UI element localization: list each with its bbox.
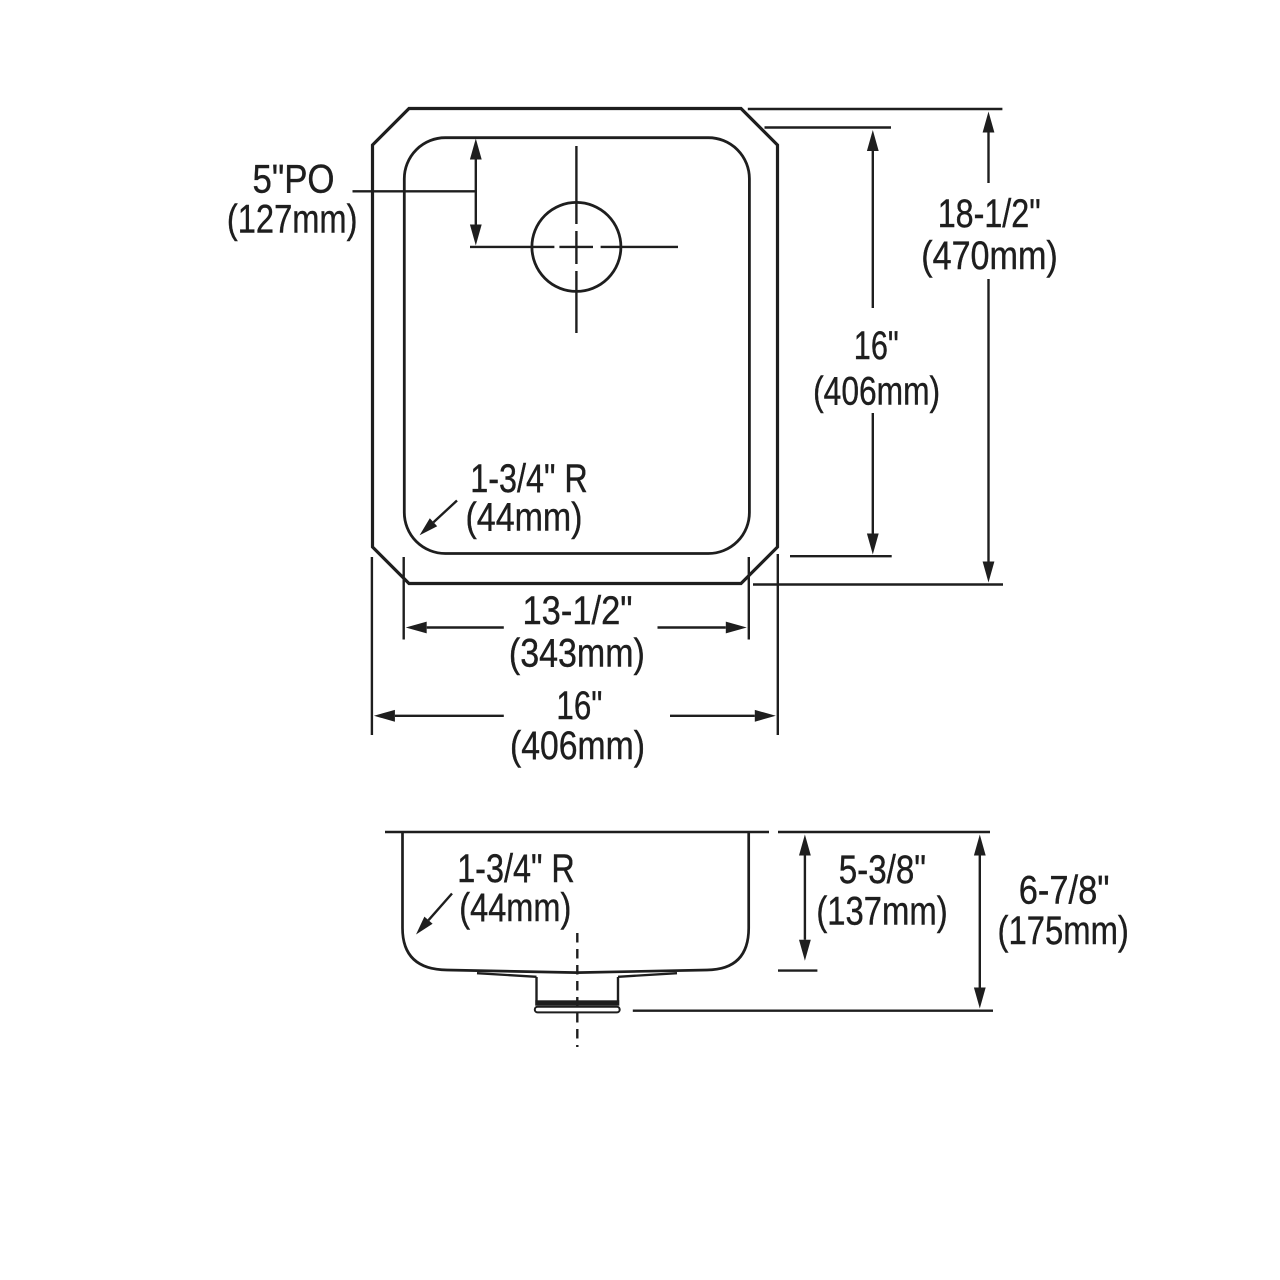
18-1/2 bottom extension line [753,583,1003,585]
18-1/2 dimension line [983,112,995,583]
drain circle [532,202,621,291]
18-1/2 top extension line [748,108,1003,110]
svg-text:5-3/8": 5-3/8" [839,848,926,892]
svg-text:(470mm): (470mm) [921,234,1058,278]
svg-text:(127mm): (127mm) [227,198,358,242]
svg-text:(175mm): (175mm) [998,909,1129,953]
drain fitting black band [535,1000,619,1005]
svg-text:(343mm): (343mm) [509,631,645,675]
6-7/8 bottom extension line [633,1010,993,1012]
5"PO leader line [353,190,476,192]
5-3/8 dimension line [799,835,811,961]
svg-text:5"PO: 5"PO [253,158,335,202]
radius leader arrow (top view) [420,501,457,536]
drain vertical centerline [575,146,577,333]
16 bottom left extension line [371,557,373,735]
dashed centerline (side view) [576,933,578,1047]
svg-text:(137mm): (137mm) [816,889,947,933]
16 right top extension line [765,126,892,128]
5-3/8 bottom extension line [778,969,817,971]
svg-text:1-3/4" R: 1-3/4" R [470,457,588,501]
drain fitting sides [535,977,537,1001]
bowl inner outline (top view rounded rect) [404,138,749,554]
bowl underside lines [477,973,537,977]
svg-text:6-7/8": 6-7/8" [1019,868,1110,912]
6-7/8 dimension line [974,835,986,1009]
svg-text:16": 16" [556,684,602,728]
16 right bottom extension line [790,555,892,557]
svg-text:(406mm): (406mm) [510,724,645,768]
13-1/2 dimension line [406,622,747,634]
svg-text:1-3/4" R: 1-3/4" R [457,847,575,891]
16 bottom right extension line [777,554,779,735]
svg-text:(44mm): (44mm) [466,496,583,540]
svg-text:(406mm): (406mm) [813,369,940,413]
radius leader arrow (side view) [416,894,452,935]
rim line (side view) [385,831,769,834]
sink outer rim (top view octagon) [373,109,778,584]
bowl profile (side view) [403,832,749,973]
drain fitting nut [535,1007,620,1013]
drain horizontal centerline [470,246,678,248]
16 bottom dimension line [374,710,776,722]
svg-text:18-1/2": 18-1/2" [938,192,1041,236]
13-1/2 right extension line [748,557,750,640]
5"PO dimension arrows [470,139,482,246]
svg-text:13-1/2": 13-1/2" [523,589,633,633]
svg-text:(44mm): (44mm) [459,886,571,930]
13-1/2 left extension line [403,557,405,640]
16 right dimension line [867,130,879,555]
svg-text:16": 16" [854,324,899,368]
